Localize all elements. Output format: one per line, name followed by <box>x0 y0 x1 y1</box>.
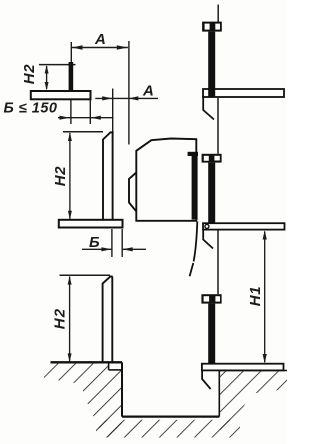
curb notch bottom <box>109 369 122 371</box>
ground surface left <box>51 361 123 363</box>
dimension A (top) extension line left <box>70 42 72 63</box>
H2 dimension line (bottom) <box>69 277 71 362</box>
top clamp <box>202 22 222 32</box>
top crossarm <box>203 89 284 97</box>
svg-text:Б ≤ 150: Б ≤ 150 <box>4 101 58 117</box>
guy line section 3 <box>217 230 219 294</box>
svg-text:Н1: Н1 <box>247 286 264 306</box>
H1 bottom arrowhead <box>263 354 267 363</box>
H2 dimension line (middle) <box>69 133 71 219</box>
mast bar upper section <box>208 32 215 97</box>
H1 dimension line <box>264 232 266 363</box>
speaker inner bar <box>192 156 198 220</box>
wall face extension line (to small A dim) <box>112 89 114 133</box>
svg-text:Н2: Н2 <box>21 64 38 84</box>
bottom wall right face <box>111 277 113 363</box>
pin axis extension through plate <box>70 91 72 124</box>
H2 middle top arrowhead <box>68 132 72 141</box>
B<=150 left arrowhead (outside, pointing right) <box>60 116 70 120</box>
antenna pin (black stub) <box>69 62 74 92</box>
B dimension line right part <box>123 248 146 250</box>
small A right arrowhead (pointing left at device face) <box>128 96 138 100</box>
mast top guy line <box>217 5 219 22</box>
svg-text:Н2: Н2 <box>52 308 69 330</box>
B<=150 right arrowhead (outside, pointing left) <box>91 116 101 120</box>
hatching right ground <box>220 371 287 430</box>
dimension A (top) left arrowhead <box>72 45 83 49</box>
speaker inner bar cap <box>188 152 198 156</box>
H2 middle bottom arrowhead <box>68 211 72 220</box>
B dim tick (wall face) <box>111 229 113 257</box>
B dim tick (plate edge) <box>121 229 123 257</box>
bottom clamp <box>201 294 221 303</box>
bottom wall <box>103 277 113 363</box>
middle wall <box>103 132 114 219</box>
mast bar lower section <box>208 304 215 364</box>
H2 bottom arrowhead <box>45 82 49 90</box>
dimension A (top) extension line right (device front face) <box>128 41 130 145</box>
middle wall top extension line <box>63 131 103 133</box>
bottom shelf <box>202 364 284 371</box>
mast bar middle section <box>208 163 215 224</box>
curb notch vertical <box>108 362 110 370</box>
pit bottom <box>122 415 219 417</box>
svg-text:А: А <box>142 83 154 100</box>
hatching below pit <box>96 420 240 438</box>
hook under middle shelf <box>203 230 213 249</box>
dimension A (top) line <box>71 47 128 49</box>
middle shelf <box>203 223 285 229</box>
middle clamp <box>202 154 222 163</box>
H1 top arrowhead <box>263 230 267 239</box>
H2 top tick line <box>39 64 76 66</box>
hanging cable <box>190 222 198 277</box>
svg-text:Б: Б <box>89 234 100 251</box>
bottom wall top extension line <box>60 274 111 276</box>
B dimension line left part <box>82 248 112 250</box>
H2 bottom-wall bottom arrowhead <box>68 353 72 362</box>
B left arrowhead <box>101 247 111 251</box>
hook under top arm <box>203 96 214 120</box>
H2 top arrowhead <box>45 65 49 73</box>
guy line section 2 <box>217 97 219 154</box>
hatching left ground <box>44 363 122 437</box>
svg-text:Н2: Н2 <box>52 166 69 186</box>
plate right edge extension <box>89 100 91 125</box>
hook under bottom shelf <box>202 371 211 389</box>
pit right wall <box>218 371 220 417</box>
wall plate (top-left) <box>31 91 91 99</box>
loudspeaker horn protrusion <box>129 173 136 212</box>
B right arrowhead <box>123 247 133 251</box>
small A left arrowhead (pointing right at wall face) <box>102 96 112 100</box>
pit left wall <box>121 362 123 416</box>
dimension B<=150 line <box>58 117 114 119</box>
dimension A (top) right arrowhead <box>117 45 128 49</box>
svg-text:А: А <box>94 31 106 48</box>
H2 dimension line (top-left) <box>46 66 48 89</box>
loudspeaker body outline <box>136 139 196 221</box>
bolt hole in middle shelf <box>205 224 209 228</box>
view A dimension line (small, at plate level) <box>95 97 158 99</box>
H2 bottom-wall top arrowhead <box>68 276 72 285</box>
ground surface right <box>219 370 287 372</box>
middle wall right face <box>112 132 114 219</box>
middle wall base plate <box>59 220 123 228</box>
